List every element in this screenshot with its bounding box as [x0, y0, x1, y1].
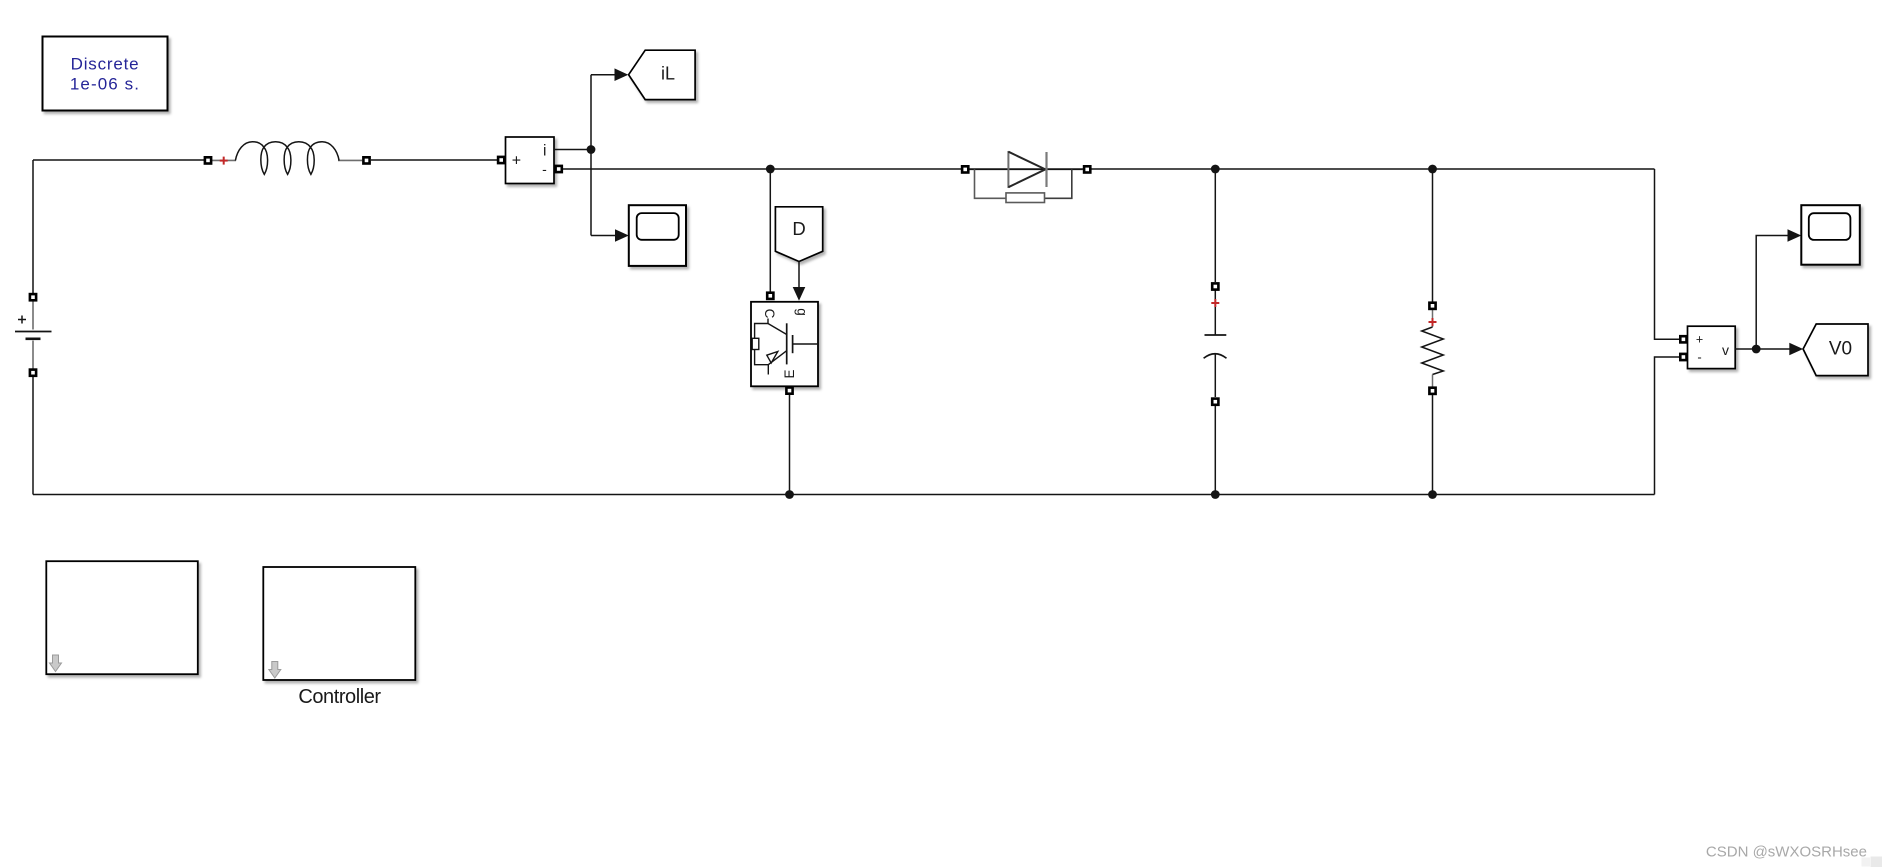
wire: inductor to current measurement — [371, 159, 497, 161]
inductor L — [212, 142, 362, 175]
wire: IGBT emitter to bottom rail — [789, 395, 791, 495]
wire: down to IGBT collector — [769, 169, 771, 292]
scope2 — [1801, 205, 1860, 265]
wire: to iL goto tag — [591, 74, 616, 76]
watermark CSDN — [1706, 844, 1882, 867]
wire: resistor to bottom rail — [1432, 395, 1434, 495]
port square: IGBT collector — [767, 293, 773, 299]
from tag D — [775, 207, 822, 262]
wire: D tag to IGBT gate — [798, 262, 800, 289]
capacitor C — [1204, 290, 1227, 397]
port square: voltage measurement - input — [1680, 354, 1686, 360]
svg-text:Controller: Controller — [298, 686, 381, 708]
wire: vertical branch to iL tag and scope — [590, 75, 592, 236]
port square: diode cathode — [1084, 166, 1090, 172]
svg-text:v: v — [1722, 342, 1729, 358]
wire: up to scope2 — [1756, 236, 1788, 350]
svg-text:1e-06 s.: 1e-06 s. — [70, 75, 140, 94]
svg-text:CSDN @sWXOSRHsee: CSDN @sWXOSRHsee — [1706, 844, 1867, 861]
arrowhead into iL — [615, 68, 629, 81]
svg-text:g: g — [795, 308, 810, 316]
svg-text:Discrete: Discrete — [71, 55, 140, 74]
arrowhead into V0 — [1789, 343, 1803, 356]
powergui block "Discrete 1e-06 s." — [43, 37, 168, 111]
wire: to scope1 — [591, 235, 616, 237]
node: junction capacitor branch top — [1211, 165, 1220, 174]
arrowhead into scope1 — [615, 229, 629, 242]
port square: resistor top — [1429, 303, 1435, 309]
wire: right corner down to voltage measurement + — [1655, 169, 1681, 339]
wire: v output to junction — [1735, 348, 1756, 350]
wire: to V0 goto tag — [1756, 348, 1790, 350]
resistor R — [1422, 310, 1444, 387]
port square: DC source - terminal — [30, 370, 36, 376]
IGBT block — [751, 302, 818, 387]
svg-text:i: i — [543, 143, 546, 160]
label: red + of capacitor — [1211, 299, 1219, 307]
arrowhead into scope2 — [1788, 229, 1802, 242]
svg-text:V0: V0 — [1829, 339, 1852, 360]
port square: inductor left — [205, 157, 211, 163]
DC voltage source E — [15, 301, 52, 369]
arrowhead into IGBT gate — [793, 287, 806, 301]
label: red + of resistor — [1429, 318, 1437, 326]
goto tag V0 — [1803, 324, 1868, 376]
svg-text:+: + — [512, 152, 521, 169]
svg-text:-: - — [1697, 350, 1701, 365]
wire: bottom rail — [33, 494, 1655, 496]
node: junction to IGBT collector — [766, 165, 775, 174]
wire: DC source bottom to bottom rail — [32, 377, 34, 495]
wire: top-left horizontal to inductor — [33, 159, 204, 161]
port square: current measurement input — [498, 157, 504, 163]
port square: capacitor top — [1212, 283, 1218, 289]
node: junction emitter / bottom rail — [785, 490, 794, 499]
wire: left vertical from top rail to DC source — [32, 160, 34, 293]
wire: down to resistor — [1432, 169, 1434, 302]
diode block — [970, 151, 1083, 203]
node: junction resistor branch top — [1428, 165, 1437, 174]
port square: current measurement - output — [556, 166, 562, 172]
subsystem box 1 — [46, 561, 198, 674]
port square: voltage measurement + input — [1680, 336, 1686, 342]
goto tag iL — [629, 50, 696, 99]
wire: capacitor to bottom rail — [1214, 406, 1216, 495]
port square: diode anode — [962, 166, 968, 172]
node: junction resistor bottom rail — [1428, 490, 1437, 499]
label: red + of inductor — [220, 157, 228, 165]
port square: inductor right — [363, 157, 369, 163]
port square: resistor bottom — [1429, 388, 1435, 394]
wire: main mid rail from current measurement to right corner — [563, 168, 1655, 170]
scope1 — [629, 205, 686, 266]
svg-text:C: C — [762, 309, 777, 319]
node: junction capacitor bottom rail — [1211, 490, 1220, 499]
svg-text:+: + — [1696, 333, 1703, 347]
svg-text:-: - — [542, 161, 547, 177]
node: junction on i signal — [587, 145, 596, 154]
svg-text:D: D — [792, 218, 805, 239]
svg-text:E: E — [782, 369, 797, 378]
subsystem box 2 Controller — [263, 567, 415, 708]
port square: capacitor bottom — [1212, 399, 1218, 405]
port square: IGBT emitter — [786, 388, 792, 394]
voltage measurement block — [1688, 326, 1736, 368]
svg-text:iL: iL — [661, 64, 675, 84]
wire: i signal out of current measurement — [554, 149, 591, 151]
current measurement block — [506, 137, 555, 184]
node: junction on v signal — [1752, 345, 1761, 354]
wire: voltage measurement - to bottom rail — [1655, 357, 1681, 495]
wire: down to capacitor — [1214, 169, 1216, 282]
port square: DC source + terminal — [30, 294, 36, 300]
